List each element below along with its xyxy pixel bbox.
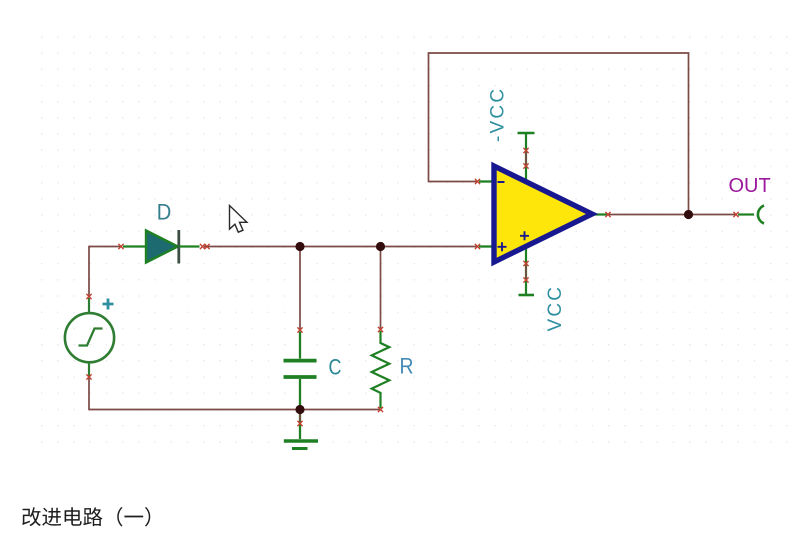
junction node: resistor top — [376, 242, 385, 251]
op-amp plus sign (middle) — [520, 231, 529, 240]
wire: diode cathode to op-amp noninverting input — [204, 246, 477, 248]
wire: source bottom to bottom rail — [89, 377, 381, 410]
wire: resistor branch top — [380, 247, 382, 330]
junction node: diode/cap — [295, 242, 304, 251]
pin x-mark source top — [86, 294, 91, 299]
pin x-mark op-amp output — [605, 212, 610, 217]
op-amp U1 — [494, 166, 592, 262]
wire: op-amp output to OUT terminal — [607, 214, 736, 216]
diode D — [123, 230, 200, 264]
junction node: bottom rail / ground — [295, 405, 304, 414]
op-amp bottom power pin (VCC) — [519, 246, 535, 295]
pin x-mark OUT terminal — [733, 212, 738, 217]
pin x-mark diode cathode a — [200, 244, 205, 249]
ground — [284, 410, 318, 449]
pin x-mark VCC port — [523, 277, 528, 282]
wire: source top to diode corner — [89, 247, 120, 297]
pin x-mark op-amp inverting input — [475, 179, 480, 184]
svg-text:VCC: VCC — [545, 285, 566, 332]
op-amp top power pin (-VCC) — [518, 133, 535, 180]
voltage source V1 — [65, 298, 114, 377]
pin x-mark -VCC port — [523, 148, 528, 153]
svg-text:D: D — [157, 200, 172, 225]
svg-text:C: C — [329, 355, 342, 380]
pin x-mark resistor bottom — [378, 407, 383, 412]
pin x-mark source bottom — [86, 374, 91, 379]
pin x-mark resistor top — [378, 327, 383, 332]
svg-text:OUT: OUT — [729, 175, 771, 197]
op-amp minus sign — [498, 181, 505, 183]
pin x-mark op-amp noninverting input — [475, 244, 480, 249]
pin x-mark op-amp V+ pin — [523, 163, 528, 168]
pin x-mark op-amp V- pin — [523, 261, 528, 266]
mouse cursor — [230, 206, 247, 233]
op-amp plus sign (input) — [498, 242, 507, 251]
svg-text:R: R — [400, 354, 414, 379]
OUT terminal — [738, 206, 764, 224]
caption 改进电路（一） — [22, 507, 150, 527]
pin x-mark ground — [297, 421, 302, 426]
junction node: output/feedback — [684, 210, 693, 219]
capacitor C — [284, 332, 317, 410]
wire: feedback loop from inverting input over the top — [429, 53, 689, 215]
op-amp output stub — [590, 213, 607, 215]
pin x-mark capacitor top — [297, 327, 302, 332]
pin x-mark diode anode — [118, 244, 123, 249]
source polarity plus — [103, 299, 114, 310]
resistor R — [372, 331, 390, 408]
pin x-mark diode cathode b — [204, 244, 209, 249]
wire: capacitor branch top — [299, 247, 301, 331]
svg-text:-VCC: -VCC — [488, 87, 509, 142]
op-amp input stubs — [479, 180, 495, 182]
